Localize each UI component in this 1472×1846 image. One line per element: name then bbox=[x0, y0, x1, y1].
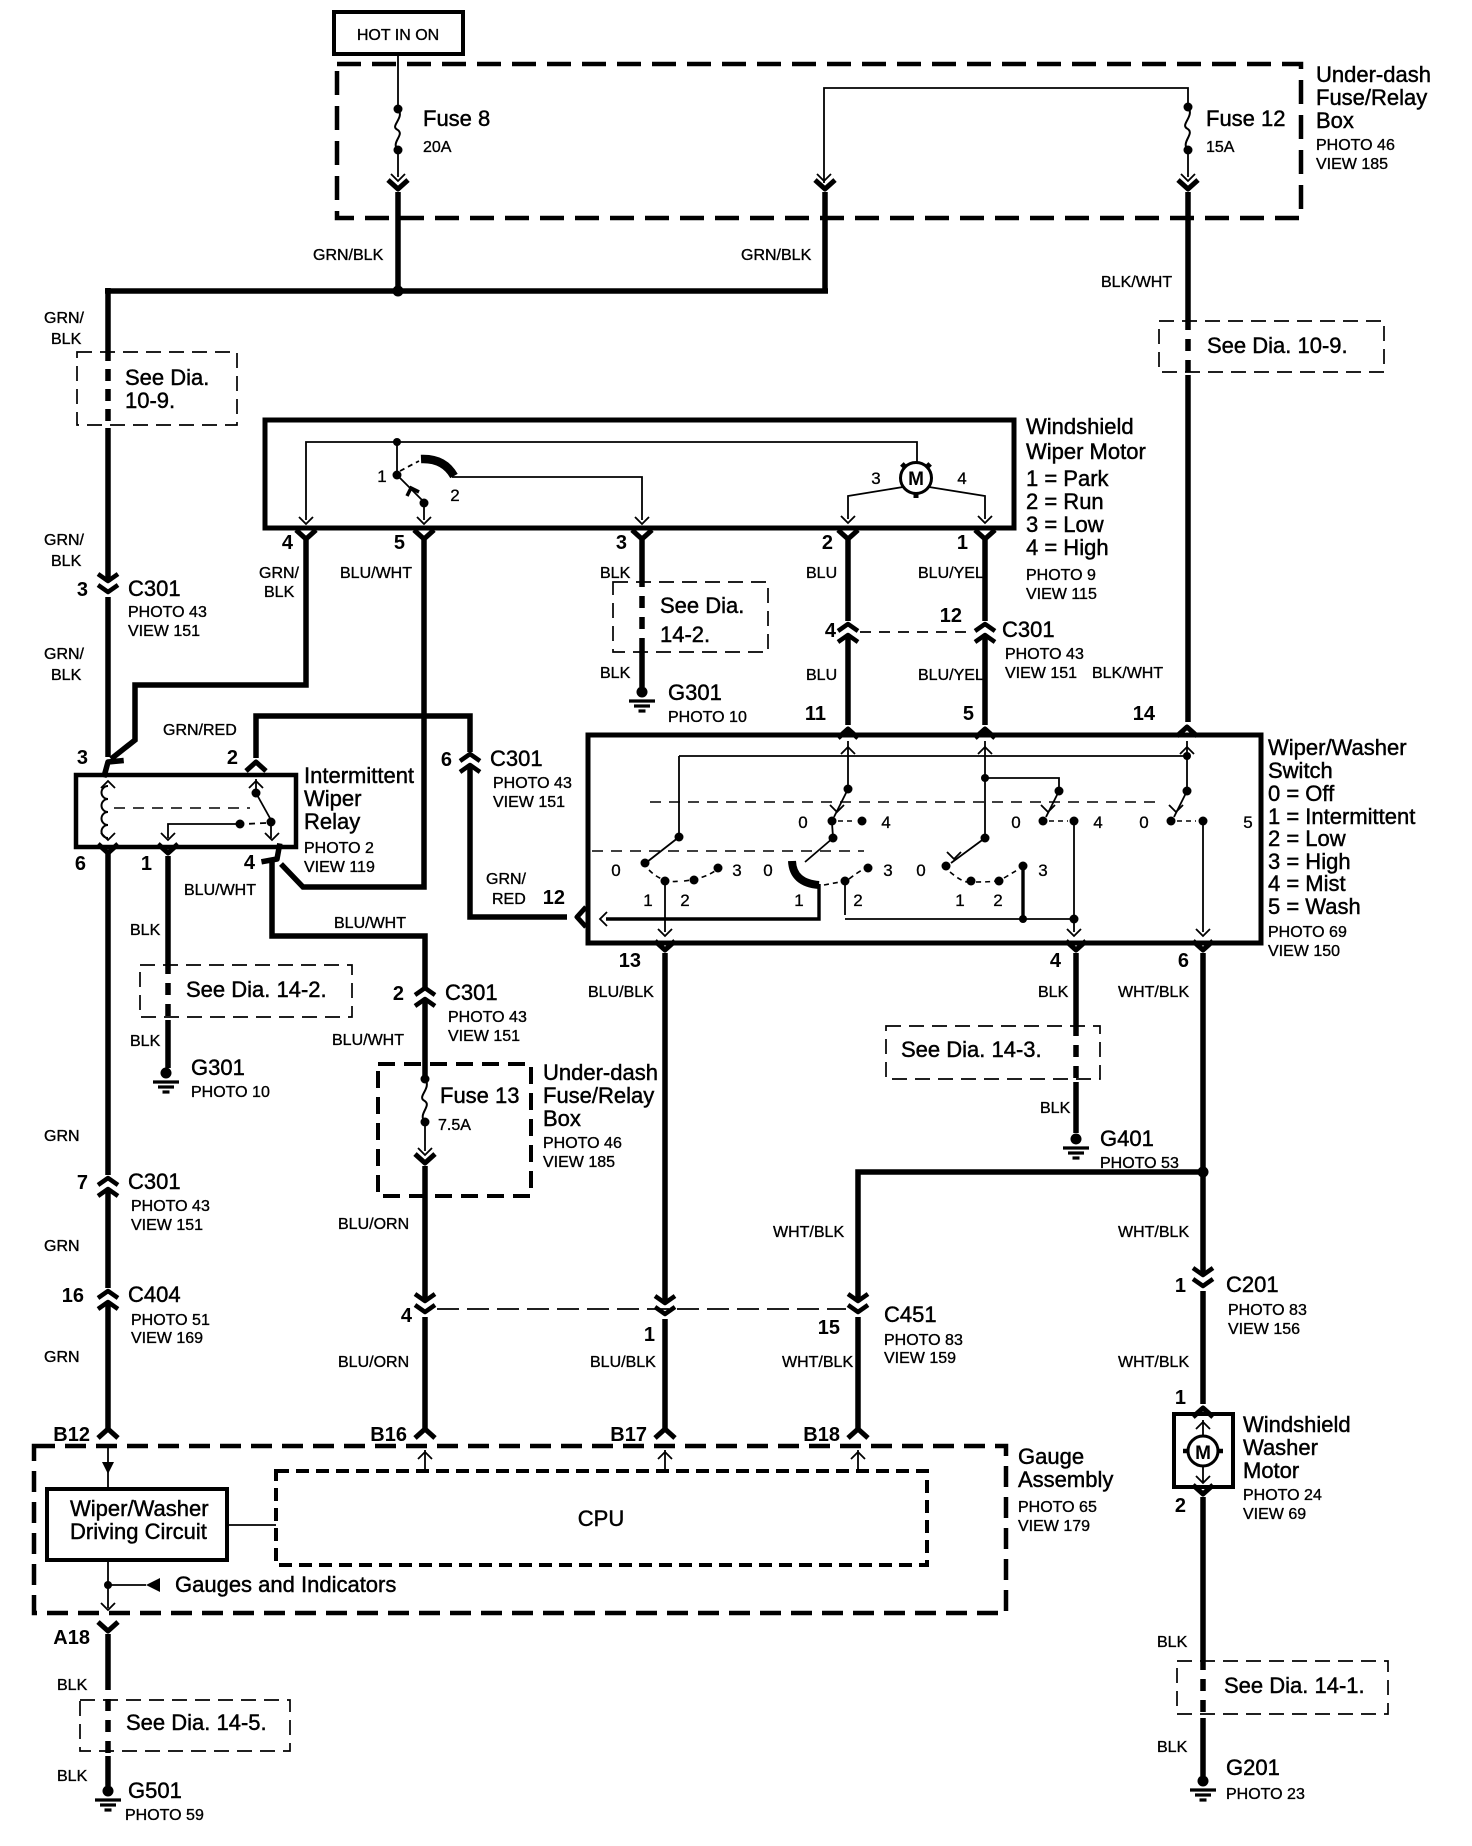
svg-text:BLU/BLK: BLU/BLK bbox=[590, 1354, 656, 1371]
svg-text:BLK: BLK bbox=[51, 667, 82, 684]
svg-text:BLK: BLK bbox=[600, 665, 631, 682]
svg-text:4 = High: 4 = High bbox=[1026, 535, 1109, 560]
svg-text:1: 1 bbox=[644, 1324, 655, 1346]
svg-text:10-9.: 10-9. bbox=[125, 388, 175, 413]
svg-text:0: 0 bbox=[1139, 813, 1148, 832]
svg-text:PHOTO 59: PHOTO 59 bbox=[125, 1807, 204, 1824]
svg-text:2: 2 bbox=[853, 891, 862, 910]
svg-text:20A: 20A bbox=[423, 139, 452, 156]
svg-text:BLK: BLK bbox=[264, 584, 295, 601]
svg-text:15: 15 bbox=[818, 1317, 840, 1339]
svg-text:2: 2 bbox=[393, 983, 404, 1005]
svg-text:B16: B16 bbox=[370, 1424, 407, 1446]
svg-text:WHT/BLK: WHT/BLK bbox=[1118, 984, 1189, 1001]
svg-text:PHOTO 43: PHOTO 43 bbox=[1005, 646, 1084, 663]
svg-text:See Dia.: See Dia. bbox=[660, 593, 744, 618]
svg-text:PHOTO 23: PHOTO 23 bbox=[1226, 1786, 1305, 1803]
svg-text:3 = Low: 3 = Low bbox=[1026, 512, 1104, 537]
svg-text:Fuse 13: Fuse 13 bbox=[440, 1083, 520, 1108]
svg-text:Gauges and Indicators: Gauges and Indicators bbox=[175, 1572, 396, 1597]
svg-text:WHT/BLK: WHT/BLK bbox=[1118, 1354, 1189, 1371]
svg-text:Washer: Washer bbox=[1243, 1435, 1318, 1460]
svg-text:5: 5 bbox=[963, 703, 974, 725]
svg-text:Fuse/Relay: Fuse/Relay bbox=[1316, 85, 1427, 110]
svg-text:C301: C301 bbox=[490, 746, 543, 771]
svg-text:Under-dash: Under-dash bbox=[1316, 62, 1431, 87]
svg-text:4: 4 bbox=[282, 532, 294, 554]
svg-text:C451: C451 bbox=[884, 1302, 937, 1327]
svg-text:BLU/WHT: BLU/WHT bbox=[334, 915, 406, 932]
svg-text:Box: Box bbox=[1316, 108, 1354, 133]
svg-text:See Dia. 10-9.: See Dia. 10-9. bbox=[1207, 333, 1348, 358]
svg-text:0: 0 bbox=[611, 861, 620, 880]
svg-text:2: 2 bbox=[1175, 1495, 1186, 1517]
svg-text:5 = Wash: 5 = Wash bbox=[1268, 894, 1361, 919]
svg-text:1: 1 bbox=[1175, 1275, 1186, 1297]
svg-text:11: 11 bbox=[805, 703, 826, 725]
svg-text:6: 6 bbox=[441, 749, 452, 771]
svg-text:GRN/: GRN/ bbox=[44, 310, 85, 327]
svg-text:BLU/YEL: BLU/YEL bbox=[918, 565, 984, 582]
svg-text:1: 1 bbox=[643, 891, 652, 910]
svg-text:CPU: CPU bbox=[578, 1506, 624, 1531]
svg-text:4: 4 bbox=[1050, 950, 1062, 972]
svg-text:See Dia. 14-3.: See Dia. 14-3. bbox=[901, 1037, 1042, 1062]
svg-text:WHT/BLK: WHT/BLK bbox=[773, 1224, 844, 1241]
svg-text:BLK: BLK bbox=[1157, 1739, 1188, 1756]
svg-text:GRN/: GRN/ bbox=[486, 871, 527, 888]
svg-text:G201: G201 bbox=[1226, 1755, 1280, 1780]
svg-text:4: 4 bbox=[957, 469, 966, 488]
svg-text:G501: G501 bbox=[128, 1778, 182, 1803]
svg-text:1: 1 bbox=[377, 467, 386, 486]
svg-text:BLK: BLK bbox=[1157, 1634, 1188, 1651]
svg-text:13: 13 bbox=[619, 950, 641, 972]
svg-text:Wiper/Washer: Wiper/Washer bbox=[70, 1496, 209, 1521]
svg-text:4: 4 bbox=[881, 813, 890, 832]
svg-text:3: 3 bbox=[616, 532, 627, 554]
svg-text:GRN/: GRN/ bbox=[259, 565, 300, 582]
svg-text:PHOTO 83: PHOTO 83 bbox=[1228, 1302, 1307, 1319]
svg-text:B12: B12 bbox=[53, 1424, 90, 1446]
svg-text:GRN/BLK: GRN/BLK bbox=[741, 247, 812, 264]
svg-text:VIEW 185: VIEW 185 bbox=[543, 1154, 615, 1171]
svg-text:VIEW 115: VIEW 115 bbox=[1026, 586, 1097, 603]
svg-text:BLU/ORN: BLU/ORN bbox=[338, 1216, 409, 1233]
svg-text:PHOTO 51: PHOTO 51 bbox=[131, 1312, 210, 1329]
svg-text:PHOTO 46: PHOTO 46 bbox=[1316, 137, 1395, 154]
svg-text:PHOTO 43: PHOTO 43 bbox=[448, 1009, 527, 1026]
svg-text:See Dia. 14-2.: See Dia. 14-2. bbox=[186, 977, 327, 1002]
svg-text:HOT IN ON: HOT IN ON bbox=[357, 27, 439, 44]
svg-text:GRN: GRN bbox=[44, 1238, 80, 1255]
svg-text:0: 0 bbox=[1011, 813, 1020, 832]
svg-text:B17: B17 bbox=[610, 1424, 647, 1446]
svg-text:VIEW 69: VIEW 69 bbox=[1243, 1506, 1306, 1523]
svg-text:3: 3 bbox=[732, 861, 741, 880]
svg-text:BLU/WHT: BLU/WHT bbox=[184, 882, 256, 899]
svg-text:3: 3 bbox=[77, 747, 88, 769]
svg-text:VIEW 150: VIEW 150 bbox=[1268, 943, 1340, 960]
svg-text:See Dia.: See Dia. bbox=[125, 365, 209, 390]
svg-text:1: 1 bbox=[957, 532, 968, 554]
svg-text:4: 4 bbox=[401, 1305, 413, 1327]
svg-text:C301: C301 bbox=[128, 1169, 181, 1194]
svg-text:1: 1 bbox=[141, 853, 152, 875]
svg-text:0 = Off: 0 = Off bbox=[1268, 781, 1335, 806]
svg-text:See Dia. 14-1.: See Dia. 14-1. bbox=[1224, 1673, 1365, 1698]
svg-text:BLU: BLU bbox=[806, 565, 837, 582]
svg-text:BLU/YEL: BLU/YEL bbox=[918, 667, 984, 684]
svg-text:2: 2 bbox=[227, 747, 238, 769]
svg-text:3: 3 bbox=[77, 579, 88, 601]
svg-text:15A: 15A bbox=[1206, 139, 1235, 156]
svg-text:Switch: Switch bbox=[1268, 758, 1333, 783]
svg-text:BLK: BLK bbox=[130, 1033, 161, 1050]
svg-text:5: 5 bbox=[394, 532, 405, 554]
svg-text:GRN: GRN bbox=[44, 1349, 80, 1366]
svg-text:6: 6 bbox=[1178, 950, 1189, 972]
svg-text:5: 5 bbox=[1243, 813, 1252, 832]
svg-text:Fuse/Relay: Fuse/Relay bbox=[543, 1083, 654, 1108]
svg-text:4: 4 bbox=[825, 620, 837, 642]
svg-text:Windshield: Windshield bbox=[1026, 414, 1134, 439]
svg-text:BLU/WHT: BLU/WHT bbox=[340, 565, 412, 582]
svg-text:2: 2 bbox=[993, 891, 1002, 910]
svg-text:0: 0 bbox=[798, 813, 807, 832]
svg-text:B18: B18 bbox=[803, 1424, 840, 1446]
svg-text:BLK: BLK bbox=[1040, 1100, 1071, 1117]
svg-text:M: M bbox=[1195, 1443, 1211, 1464]
svg-text:0: 0 bbox=[916, 861, 925, 880]
svg-text:BLU/BLK: BLU/BLK bbox=[588, 984, 654, 1001]
svg-text:PHOTO 43: PHOTO 43 bbox=[493, 775, 572, 792]
svg-text:BLK: BLK bbox=[51, 553, 82, 570]
svg-text:GRN/: GRN/ bbox=[44, 646, 85, 663]
svg-text:Motor: Motor bbox=[1243, 1458, 1299, 1483]
svg-text:3: 3 bbox=[1038, 861, 1047, 880]
svg-text:Wiper/Washer: Wiper/Washer bbox=[1268, 735, 1407, 760]
svg-text:GRN/BLK: GRN/BLK bbox=[313, 247, 384, 264]
svg-text:BLK/WHT: BLK/WHT bbox=[1101, 274, 1172, 291]
svg-text:PHOTO 24: PHOTO 24 bbox=[1243, 1487, 1322, 1504]
svg-text:12: 12 bbox=[543, 887, 565, 909]
svg-text:1: 1 bbox=[1175, 1387, 1186, 1409]
svg-text:Relay: Relay bbox=[304, 809, 360, 834]
svg-text:GRN/RED: GRN/RED bbox=[163, 722, 237, 739]
svg-text:12: 12 bbox=[940, 605, 962, 627]
svg-text:2 = Low: 2 = Low bbox=[1268, 826, 1346, 851]
svg-text:PHOTO 83: PHOTO 83 bbox=[884, 1332, 963, 1349]
svg-text:BLK/WHT: BLK/WHT bbox=[1092, 665, 1163, 682]
svg-text:Fuse 12: Fuse 12 bbox=[1206, 106, 1286, 131]
svg-text:Wiper Motor: Wiper Motor bbox=[1026, 439, 1146, 464]
svg-text:Windshield: Windshield bbox=[1243, 1412, 1351, 1437]
svg-text:PHOTO 9: PHOTO 9 bbox=[1026, 567, 1096, 584]
svg-text:PHOTO 10: PHOTO 10 bbox=[191, 1084, 270, 1101]
svg-text:VIEW 119: VIEW 119 bbox=[304, 859, 375, 876]
svg-text:VIEW 156: VIEW 156 bbox=[1228, 1321, 1300, 1338]
svg-text:PHOTO 10: PHOTO 10 bbox=[668, 709, 747, 726]
svg-text:2: 2 bbox=[822, 532, 833, 554]
svg-text:1: 1 bbox=[794, 891, 803, 910]
svg-text:14-2.: 14-2. bbox=[660, 622, 710, 647]
svg-text:PHOTO 43: PHOTO 43 bbox=[128, 604, 207, 621]
svg-text:VIEW 151: VIEW 151 bbox=[448, 1028, 520, 1045]
svg-text:BLK: BLK bbox=[600, 565, 631, 582]
svg-text:PHOTO 43: PHOTO 43 bbox=[131, 1198, 210, 1215]
svg-text:1: 1 bbox=[955, 891, 964, 910]
svg-text:Assembly: Assembly bbox=[1018, 1467, 1113, 1492]
svg-text:BLK: BLK bbox=[51, 331, 82, 348]
svg-text:PHOTO 46: PHOTO 46 bbox=[543, 1135, 622, 1152]
svg-text:RED: RED bbox=[492, 891, 526, 908]
svg-text:G401: G401 bbox=[1100, 1126, 1154, 1151]
svg-text:BLU: BLU bbox=[806, 667, 837, 684]
svg-text:See Dia. 14-5.: See Dia. 14-5. bbox=[126, 1710, 267, 1735]
svg-text:PHOTO 65: PHOTO 65 bbox=[1018, 1499, 1097, 1516]
svg-text:0: 0 bbox=[763, 861, 772, 880]
svg-text:4 = Mist: 4 = Mist bbox=[1268, 871, 1346, 896]
svg-text:G301: G301 bbox=[668, 680, 722, 705]
svg-text:Fuse 8: Fuse 8 bbox=[423, 106, 490, 131]
svg-text:Box: Box bbox=[543, 1106, 581, 1131]
svg-text:VIEW 151: VIEW 151 bbox=[131, 1217, 203, 1234]
svg-text:3: 3 bbox=[871, 469, 880, 488]
svg-text:3: 3 bbox=[883, 861, 892, 880]
svg-text:A18: A18 bbox=[53, 1627, 90, 1649]
svg-text:BLK: BLK bbox=[1038, 984, 1069, 1001]
svg-text:VIEW 159: VIEW 159 bbox=[884, 1350, 956, 1367]
svg-text:VIEW 151: VIEW 151 bbox=[128, 623, 200, 640]
svg-text:VIEW 151: VIEW 151 bbox=[493, 794, 565, 811]
svg-text:Under-dash: Under-dash bbox=[543, 1060, 658, 1085]
svg-text:G301: G301 bbox=[191, 1055, 245, 1080]
svg-text:16: 16 bbox=[62, 1285, 84, 1307]
svg-text:4: 4 bbox=[244, 852, 256, 874]
svg-text:2: 2 bbox=[680, 891, 689, 910]
svg-text:C301: C301 bbox=[128, 576, 181, 601]
svg-text:BLK: BLK bbox=[130, 922, 161, 939]
svg-text:2: 2 bbox=[450, 486, 459, 505]
svg-text:BLK: BLK bbox=[57, 1677, 88, 1694]
svg-text:VIEW 185: VIEW 185 bbox=[1316, 156, 1388, 173]
svg-text:C404: C404 bbox=[128, 1282, 181, 1307]
svg-text:C301: C301 bbox=[445, 980, 498, 1005]
svg-text:4: 4 bbox=[1093, 813, 1102, 832]
svg-text:7: 7 bbox=[77, 1172, 88, 1194]
svg-text:2 = Run: 2 = Run bbox=[1026, 489, 1104, 514]
svg-text:GRN: GRN bbox=[44, 1128, 80, 1145]
svg-text:VIEW 151: VIEW 151 bbox=[1005, 665, 1077, 682]
svg-text:Driving Circuit: Driving Circuit bbox=[70, 1519, 207, 1544]
svg-text:Intermittent: Intermittent bbox=[304, 763, 414, 788]
svg-text:BLU/ORN: BLU/ORN bbox=[338, 1354, 409, 1371]
svg-text:Wiper: Wiper bbox=[304, 786, 361, 811]
svg-text:BLK: BLK bbox=[57, 1768, 88, 1785]
svg-text:6: 6 bbox=[75, 853, 86, 875]
svg-text:VIEW 169: VIEW 169 bbox=[131, 1330, 203, 1347]
svg-text:M: M bbox=[908, 469, 924, 490]
svg-text:WHT/BLK: WHT/BLK bbox=[782, 1354, 853, 1371]
svg-text:C301: C301 bbox=[1002, 617, 1055, 642]
svg-text:PHOTO 2: PHOTO 2 bbox=[304, 840, 374, 857]
svg-text:VIEW 179: VIEW 179 bbox=[1018, 1518, 1090, 1535]
svg-text:14: 14 bbox=[1133, 703, 1156, 725]
svg-text:GRN/: GRN/ bbox=[44, 532, 85, 549]
svg-text:PHOTO 69: PHOTO 69 bbox=[1268, 924, 1347, 941]
svg-text:Gauge: Gauge bbox=[1018, 1444, 1084, 1469]
svg-text:BLU/WHT: BLU/WHT bbox=[332, 1032, 404, 1049]
svg-text:7.5A: 7.5A bbox=[438, 1117, 471, 1134]
svg-text:C201: C201 bbox=[1226, 1272, 1279, 1297]
svg-text:1 = Park: 1 = Park bbox=[1026, 466, 1110, 491]
svg-text:WHT/BLK: WHT/BLK bbox=[1118, 1224, 1189, 1241]
